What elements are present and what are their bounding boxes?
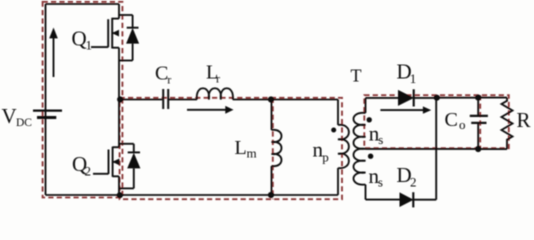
- diode D2: [400, 192, 414, 207]
- svg-text:L: L: [235, 137, 247, 159]
- wire: bottom rail: [46, 194, 339, 196]
- wire: Cr to Lr: [169, 99, 197, 101]
- node: cathode junction: [434, 95, 440, 101]
- svg-text:r: r: [216, 72, 220, 86]
- svg-text:o: o: [459, 117, 466, 132]
- node: midpoint junction: [117, 96, 123, 102]
- dashed divider through Lm: [272, 98, 274, 199]
- dashed box: output rectifier section: [364, 95, 509, 148]
- svg-text:C: C: [445, 109, 458, 131]
- node: Q2 source junction: [117, 192, 123, 198]
- node: Lm bottom: [268, 192, 274, 198]
- wire: D1 cathode to junction: [414, 97, 437, 99]
- dashed box: half-bridge section: [43, 2, 123, 198]
- svg-text:Q: Q: [72, 27, 87, 51]
- wire: Q1 source down to midpoint: [118, 48, 120, 100]
- polarity dot np: [331, 128, 336, 133]
- body diode of Q1: [119, 14, 133, 16]
- dashed box: resonant tank section: [120, 98, 342, 199]
- current arrow up (input): [53, 37, 55, 77]
- secondary winding ns (top): [365, 98, 367, 113]
- svg-text:1: 1: [86, 38, 93, 53]
- diode D1: [398, 90, 414, 106]
- svg-text:s: s: [378, 132, 383, 147]
- polarity dot ns bottom: [368, 154, 373, 159]
- wire: Lr to np corner: [233, 99, 338, 101]
- wire: D2 cathode to vertical riser: [413, 199, 436, 201]
- transistor Q1: [118, 4, 120, 19]
- wire: Co top to R corner: [478, 97, 507, 99]
- node: Lm top: [268, 96, 274, 102]
- svg-text:2: 2: [410, 175, 417, 190]
- wire: Q2 source to bottom rail: [118, 176, 120, 195]
- battery VDC bottom plate: [37, 116, 56, 119]
- wire: Co bottom to R bottom corner: [478, 148, 507, 150]
- wire: left vertical from top rail to battery: [45, 4, 47, 110]
- node: Co bottom: [475, 146, 481, 152]
- wire: center tap rail: [366, 148, 479, 150]
- wire: midpoint to Cr: [119, 99, 162, 101]
- wire: ns bottom to D2 anode: [366, 199, 400, 201]
- wire: junction to Co top: [437, 97, 478, 99]
- wire: left vertical from battery to bottom rail: [45, 112, 47, 196]
- body diode of Q2: [119, 143, 134, 145]
- svg-text:p: p: [322, 150, 329, 165]
- node: Co top: [475, 95, 481, 101]
- svg-text:r: r: [167, 73, 171, 87]
- svg-text:s: s: [378, 175, 383, 190]
- secondary winding ns (bottom): [354, 149, 366, 185]
- wire: ns top to D1 anode: [366, 97, 399, 99]
- wire: riser from D2 up to cathode junction: [435, 98, 437, 200]
- dashed divider through Co: [479, 95, 481, 148]
- svg-text:2: 2: [85, 164, 92, 179]
- capacitor Co: [477, 98, 479, 115]
- primary winding np: [337, 100, 339, 126]
- transistor Q2: [118, 100, 120, 148]
- resistor R: [502, 98, 513, 150]
- svg-text:V: V: [2, 104, 17, 128]
- polarity dot ns top: [367, 117, 372, 122]
- resonant current arrow: [187, 109, 227, 111]
- battery VDC top plate: [33, 109, 62, 111]
- svg-text:T: T: [351, 66, 362, 86]
- wire: top rail: [46, 3, 120, 5]
- capacitor Cr: [162, 89, 164, 109]
- svg-text:DC: DC: [16, 117, 32, 129]
- svg-text:R: R: [517, 108, 531, 132]
- inductor Lm: [271, 100, 273, 131]
- svg-text:m: m: [247, 146, 257, 161]
- output current arrow under D1: [380, 109, 423, 111]
- inductor Lr: [197, 88, 233, 99]
- svg-text:1: 1: [410, 71, 417, 86]
